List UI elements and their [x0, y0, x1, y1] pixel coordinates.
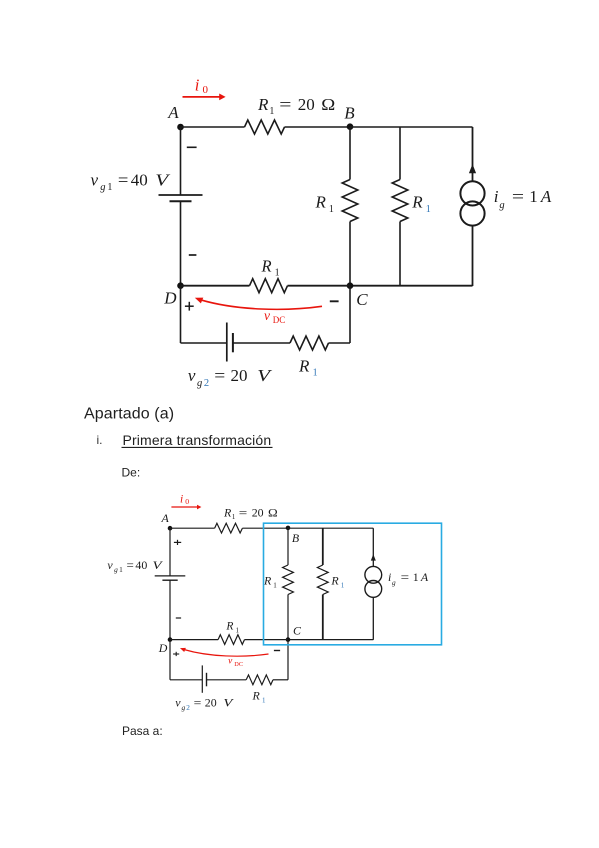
- current source ig (two circles): [460, 181, 484, 225]
- wire bottom-left to vg2: [170, 679, 202, 681]
- resistor R1 (B-C branch): [342, 180, 358, 222]
- wire source branch top: [372, 528, 374, 566]
- label i0: [195, 75, 209, 96]
- node D: [163, 282, 184, 307]
- svg-text:1: 1: [275, 268, 280, 279]
- svg-text:=: =: [279, 95, 291, 114]
- wire A to R1: [170, 527, 215, 529]
- resistor R1 (A-B), 20 ohm: [215, 523, 243, 533]
- svg-text:g: g: [392, 578, 396, 587]
- svg-text:1: 1: [262, 697, 266, 705]
- voltage arrow vDC: [184, 650, 269, 657]
- wire down to C: [287, 595, 289, 640]
- wire A down to vg1: [169, 528, 171, 576]
- svg-text:R: R: [223, 505, 232, 519]
- arrowhead of current source: [469, 164, 476, 173]
- label R1 (middle branch, blue subscript): [411, 193, 431, 215]
- svg-text:v: v: [91, 171, 99, 190]
- svg-text:40: 40: [135, 558, 147, 572]
- label R1 = 20 Ohm: [223, 505, 278, 521]
- svg-text:B: B: [292, 531, 299, 545]
- svg-text:g: g: [114, 565, 118, 574]
- label R1 = 20 Ohm: [257, 95, 335, 117]
- svg-text:=: =: [214, 366, 225, 385]
- svg-text:C: C: [293, 624, 302, 638]
- voltage source vg2 (battery): [227, 323, 233, 362]
- minus sign (left of C): [330, 300, 339, 302]
- svg-text:0: 0: [203, 84, 209, 96]
- svg-text:g: g: [197, 378, 202, 389]
- minus sign (above D): [176, 617, 181, 619]
- svg-text:=: =: [512, 187, 524, 206]
- resistor R1 (D-C): [218, 635, 244, 645]
- label R1 (D-C): [225, 621, 239, 635]
- wire R1 to C: [288, 285, 351, 287]
- node B: [286, 526, 299, 545]
- svg-text:i.: i.: [97, 433, 103, 447]
- wire vg2 to R1: [207, 679, 247, 681]
- svg-text:1: 1: [313, 368, 318, 379]
- wire C to bottom-right: [288, 639, 373, 641]
- plus sign (below A): [174, 540, 181, 545]
- label ig = 1 A: [494, 187, 552, 211]
- svg-text:De:: De:: [122, 466, 141, 480]
- svg-text:1: 1: [232, 513, 236, 521]
- svg-text:1: 1: [329, 204, 334, 215]
- svg-text:=: =: [194, 696, 202, 710]
- svg-text:2: 2: [204, 378, 209, 389]
- svg-text:Ω: Ω: [268, 505, 278, 519]
- node D: [158, 637, 173, 655]
- svg-text:=: =: [239, 505, 248, 519]
- arrowhead of current source: [371, 554, 376, 561]
- svg-text:Primera transformación: Primera transformación: [123, 432, 272, 448]
- svg-text:i: i: [494, 187, 499, 206]
- label R1 (bottom): [252, 689, 267, 705]
- svg-text:R: R: [298, 356, 310, 375]
- svg-text:0: 0: [185, 497, 189, 506]
- node C: [347, 282, 369, 309]
- label vg1 = 40 V: [91, 171, 172, 193]
- svg-text:g: g: [100, 182, 105, 193]
- current arrow i0: [183, 94, 226, 101]
- resistor R1 (bottom, blue subscript): [246, 675, 273, 685]
- svg-text:20: 20: [205, 696, 217, 710]
- highlight box (transformed section): [264, 523, 442, 645]
- svg-text:1: 1: [269, 106, 274, 117]
- wire source branch bottom: [372, 597, 374, 639]
- current arrow i0: [171, 505, 201, 510]
- svg-text:1: 1: [413, 570, 419, 584]
- svg-text:g: g: [499, 200, 504, 211]
- label vg1 = 40 V: [107, 558, 163, 574]
- svg-text:i: i: [180, 493, 183, 505]
- svg-text:R: R: [411, 193, 423, 212]
- svg-text:Apartado (a): Apartado (a): [84, 406, 174, 423]
- svg-text:1: 1: [426, 204, 431, 215]
- resistor R1 (A-B), 20 ohm: [245, 120, 285, 134]
- plus sign (below D): [185, 302, 194, 311]
- label vDC: [264, 308, 285, 325]
- svg-text:R: R: [263, 574, 272, 588]
- label vg2 = 20 V: [175, 696, 234, 712]
- wire vg2 to R1: [233, 342, 290, 344]
- svg-text:1: 1: [273, 582, 277, 590]
- svg-text:i: i: [195, 75, 200, 94]
- svg-text:B: B: [344, 104, 355, 123]
- svg-text:=: =: [127, 558, 135, 572]
- label R1 (B-C branch): [315, 193, 334, 215]
- svg-text:20: 20: [252, 505, 264, 519]
- wire R1 to B: [242, 527, 288, 529]
- wire B down: [349, 127, 351, 180]
- wire B to top-right: [350, 126, 473, 128]
- wire middle branch top: [399, 127, 401, 180]
- node A: [161, 511, 173, 531]
- wire C to bottom-right: [350, 285, 473, 287]
- wire C down to bottom loop: [287, 640, 289, 680]
- svg-text:=: =: [118, 171, 128, 190]
- svg-text:20: 20: [231, 366, 248, 385]
- label ig = 1 A: [388, 570, 429, 587]
- svg-text:R: R: [261, 256, 272, 275]
- node C: [286, 624, 302, 642]
- svg-text:v: v: [107, 558, 113, 572]
- minus sign (above D): [189, 254, 197, 256]
- svg-text:1: 1: [236, 627, 240, 635]
- wire D to R1: [170, 639, 218, 641]
- wire R1 to C: [245, 639, 289, 641]
- svg-text:v: v: [175, 696, 181, 710]
- svg-text:C: C: [356, 290, 368, 309]
- svg-text:DC: DC: [234, 661, 243, 668]
- wire R1 to B: [285, 126, 351, 128]
- wire D down: [169, 640, 171, 680]
- wire vg1 down to D: [169, 580, 171, 639]
- wire source branch top: [472, 127, 474, 181]
- current source ig (two circles): [365, 566, 382, 597]
- resistor R1 (bottom, blue subscript): [290, 336, 329, 350]
- svg-text:R: R: [252, 689, 261, 703]
- resistor R1 (D-C): [250, 279, 288, 293]
- svg-text:R: R: [257, 95, 269, 114]
- svg-text:R: R: [330, 574, 339, 588]
- minus sign (below A): [187, 146, 197, 148]
- svg-text:D: D: [163, 289, 177, 308]
- svg-text:A: A: [420, 570, 429, 584]
- wire source branch bottom: [472, 226, 474, 286]
- svg-text:R: R: [315, 193, 327, 212]
- wire D to R1: [181, 285, 250, 287]
- wire B to top-right: [288, 527, 373, 529]
- node B: [344, 104, 355, 131]
- svg-text:1: 1: [107, 182, 112, 193]
- voltage source vg1 (battery): [159, 195, 203, 201]
- minus sign (left of C): [274, 650, 280, 652]
- svg-text:=: =: [401, 570, 410, 584]
- voltage source vg2 (battery): [202, 665, 206, 692]
- plus sign (below D): [173, 652, 179, 656]
- wire A down to vg1: [180, 127, 182, 195]
- label R1 (bottom): [298, 356, 318, 378]
- svg-text:A: A: [161, 511, 170, 525]
- voltage arrow vDC: [201, 300, 323, 310]
- svg-text:1: 1: [529, 187, 538, 206]
- wire vg1 down to D: [180, 201, 182, 286]
- wire bottom-left to vg2: [181, 342, 227, 344]
- wire D down: [180, 286, 182, 343]
- svg-text:v: v: [264, 308, 270, 323]
- wire B down: [287, 528, 289, 565]
- wire A to R1: [181, 126, 245, 128]
- svg-text:Pasa a:: Pasa a:: [122, 724, 163, 738]
- wire R1 to bottom-right corner: [329, 342, 351, 344]
- resistor R1 (middle branch): [392, 180, 408, 222]
- label vDC: [228, 657, 243, 668]
- wire middle branch bottom: [322, 595, 324, 640]
- svg-text:v: v: [188, 366, 196, 385]
- label vg2 = 20 V: [188, 366, 274, 389]
- svg-text:1: 1: [341, 582, 345, 590]
- wire R1 to bottom-right corner: [273, 679, 288, 681]
- svg-text:A: A: [540, 187, 552, 206]
- svg-text:1: 1: [119, 565, 123, 574]
- resistor R1 (B-C branch): [283, 565, 294, 595]
- svg-text:D: D: [158, 641, 168, 655]
- svg-text:R: R: [225, 621, 233, 633]
- voltage source vg1 (battery): [155, 576, 186, 580]
- node A: [167, 103, 184, 130]
- wire C down to bottom loop: [349, 286, 351, 343]
- wire down to C: [349, 222, 351, 286]
- svg-text:DC: DC: [273, 315, 286, 325]
- svg-text:g: g: [182, 703, 186, 712]
- svg-text:20: 20: [298, 95, 315, 114]
- svg-text:2: 2: [186, 703, 190, 712]
- wire middle branch top: [322, 528, 324, 565]
- wire middle branch bottom: [399, 222, 401, 286]
- svg-text:A: A: [167, 103, 179, 122]
- svg-text:i: i: [388, 570, 391, 584]
- svg-text:40: 40: [131, 171, 148, 190]
- resistor R1 (middle branch): [317, 565, 328, 595]
- label R1 (D-C): [261, 256, 280, 278]
- label R1 (middle branch, blue subscript): [330, 574, 344, 590]
- svg-text:Ω: Ω: [321, 95, 335, 114]
- label i0: [180, 493, 189, 506]
- label R1 (B-C branch): [263, 574, 277, 590]
